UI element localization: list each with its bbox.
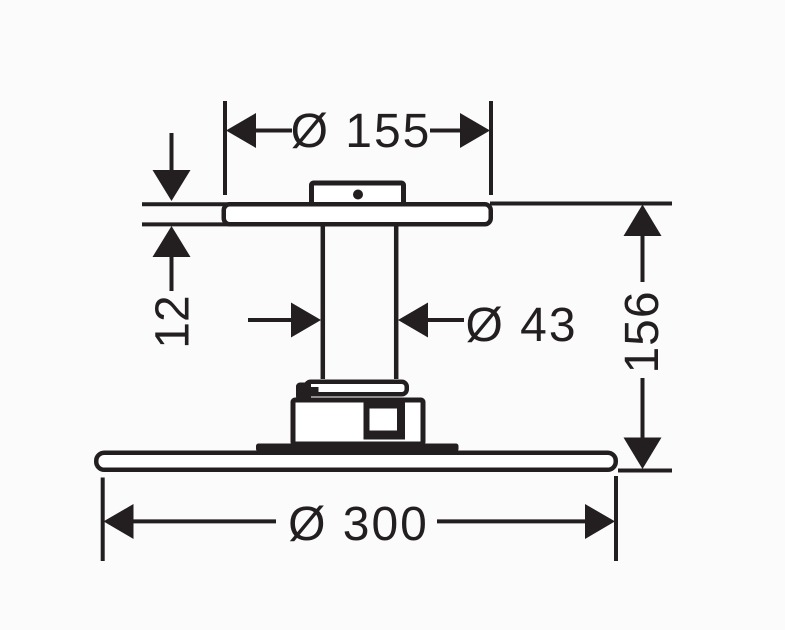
svg-text:Ø 43: Ø 43	[465, 299, 577, 352]
svg-text:Ø 300: Ø 300	[288, 498, 429, 551]
svg-text:156: 156	[616, 290, 669, 373]
svg-text:Ø 155: Ø 155	[291, 105, 432, 158]
svg-text:12: 12	[147, 295, 200, 348]
